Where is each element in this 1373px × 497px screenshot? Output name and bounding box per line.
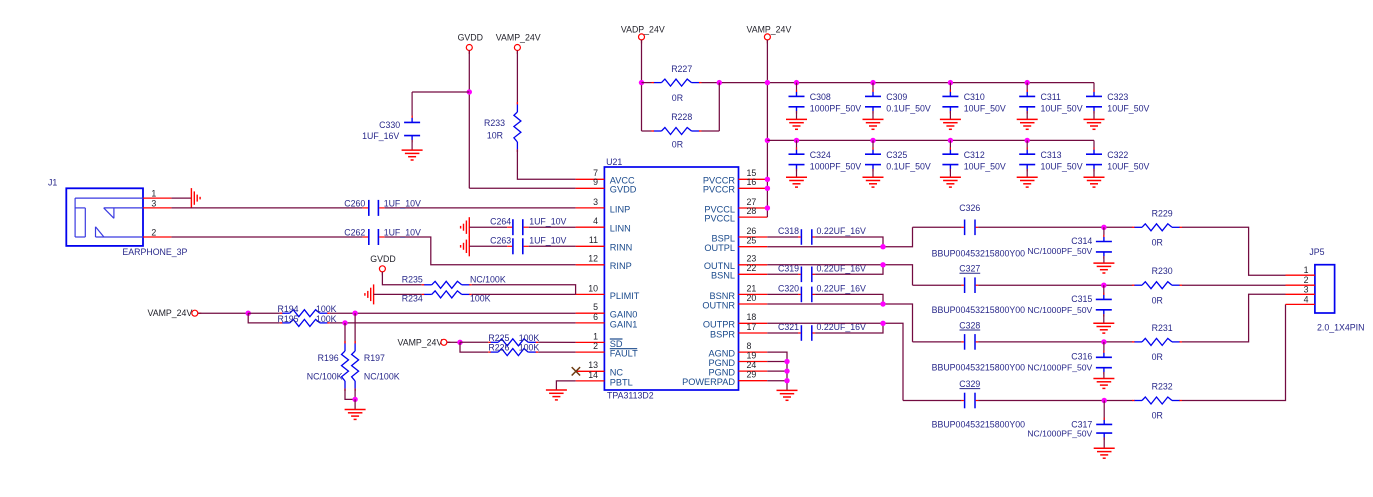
svg-text:PVCCR: PVCCR: [703, 185, 736, 195]
svg-text:2: 2: [593, 341, 598, 351]
svg-text:RINN: RINN: [610, 243, 632, 253]
svg-text:C311: C311: [1041, 92, 1061, 102]
svg-text:R227: R227: [671, 64, 692, 74]
svg-text:21: 21: [747, 283, 757, 293]
svg-text:C318: C318: [778, 226, 799, 236]
svg-text:R197: R197: [364, 353, 385, 363]
svg-text:NC/100K: NC/100K: [470, 275, 506, 285]
svg-text:NC/100K: NC/100K: [364, 371, 400, 381]
svg-text:20: 20: [747, 293, 757, 303]
svg-text:10: 10: [588, 283, 598, 293]
svg-text:C328: C328: [959, 320, 980, 330]
svg-text:C330: C330: [379, 120, 400, 130]
svg-text:BSPR: BSPR: [710, 329, 735, 339]
svg-text:BBUP00453215800Y00: BBUP00453215800Y00: [932, 363, 1026, 373]
svg-text:BBUP00453215800Y00: BBUP00453215800Y00: [932, 305, 1026, 315]
svg-text:C323: C323: [1107, 92, 1128, 102]
svg-text:PGND: PGND: [708, 368, 735, 378]
svg-text:BBUP00453215800Y00: BBUP00453215800Y00: [932, 248, 1026, 258]
svg-text:FAULT: FAULT: [610, 349, 638, 359]
svg-text:10UF_50V: 10UF_50V: [1107, 161, 1149, 171]
svg-text:VADP_24V: VADP_24V: [621, 25, 665, 35]
svg-text:22: 22: [747, 263, 757, 273]
svg-text:C260: C260: [344, 198, 365, 208]
svg-text:R229: R229: [1152, 208, 1173, 218]
svg-text:C327: C327: [959, 264, 980, 274]
svg-text:R225: R225: [488, 333, 509, 343]
svg-text:2: 2: [151, 228, 156, 238]
svg-text:C325: C325: [886, 150, 907, 160]
svg-text:1UF_16V: 1UF_16V: [362, 131, 399, 141]
svg-text:0.1UF_50V: 0.1UF_50V: [886, 104, 931, 114]
svg-text:19: 19: [747, 350, 757, 360]
svg-text:C308: C308: [810, 92, 831, 102]
svg-text:100K: 100K: [519, 343, 540, 353]
svg-text:C313: C313: [1041, 150, 1062, 160]
svg-text:10UF_50V: 10UF_50V: [1107, 104, 1149, 114]
svg-text:9: 9: [593, 177, 598, 187]
svg-text:NC/100K: NC/100K: [307, 371, 343, 381]
svg-text:28: 28: [747, 206, 757, 216]
svg-text:13: 13: [588, 360, 598, 370]
svg-text:JP5: JP5: [1309, 247, 1324, 257]
svg-text:0.22UF_16V: 0.22UF_16V: [817, 226, 867, 236]
svg-text:RINP: RINP: [610, 261, 632, 271]
svg-text:GAIN0: GAIN0: [610, 310, 638, 320]
svg-text:100K: 100K: [316, 304, 337, 314]
svg-text:10R: 10R: [487, 130, 503, 140]
svg-text:R196: R196: [318, 353, 339, 363]
svg-text:4: 4: [1304, 294, 1309, 304]
svg-text:C262: C262: [344, 228, 365, 238]
svg-text:C324: C324: [810, 150, 831, 160]
svg-text:10UF_50V: 10UF_50V: [964, 161, 1006, 171]
svg-text:C264: C264: [490, 216, 511, 226]
svg-text:3: 3: [151, 198, 156, 208]
svg-text:VAMP_24V: VAMP_24V: [148, 308, 193, 318]
svg-text:10UF_50V: 10UF_50V: [1041, 104, 1083, 114]
svg-text:BSNL: BSNL: [711, 271, 735, 281]
svg-text:VAMP_24V: VAMP_24V: [398, 337, 443, 347]
svg-text:C322: C322: [1107, 150, 1128, 160]
svg-text:24: 24: [747, 360, 757, 370]
svg-text:16: 16: [747, 177, 757, 187]
svg-text:GVDD: GVDD: [610, 185, 637, 195]
svg-text:LINN: LINN: [610, 224, 631, 234]
svg-text:SD: SD: [610, 339, 623, 349]
svg-text:OUTPR: OUTPR: [703, 320, 736, 330]
svg-text:BSPL: BSPL: [712, 233, 736, 243]
svg-text:R195: R195: [277, 314, 298, 324]
svg-text:PBTL: PBTL: [610, 377, 633, 387]
svg-text:R232: R232: [1152, 382, 1173, 392]
svg-text:C320: C320: [778, 284, 799, 294]
svg-text:R234: R234: [402, 294, 423, 304]
svg-text:0R: 0R: [1152, 238, 1163, 248]
svg-text:0R: 0R: [1152, 411, 1163, 421]
svg-text:NC/1000PF_50V: NC/1000PF_50V: [1027, 305, 1092, 315]
svg-text:14: 14: [588, 370, 598, 380]
svg-text:R230: R230: [1152, 266, 1173, 276]
svg-text:1UF_10V: 1UF_10V: [529, 236, 566, 246]
svg-text:5: 5: [593, 302, 598, 312]
svg-text:25: 25: [747, 236, 757, 246]
svg-text:0R: 0R: [672, 93, 683, 103]
svg-text:NC: NC: [610, 368, 624, 378]
svg-text:R231: R231: [1152, 323, 1173, 333]
svg-text:10UF_50V: 10UF_50V: [1041, 161, 1083, 171]
svg-text:GAIN1: GAIN1: [610, 319, 638, 329]
svg-text:0R: 0R: [1152, 295, 1163, 305]
svg-text:EARPHONE_3P: EARPHONE_3P: [122, 247, 187, 257]
svg-text:C315: C315: [1071, 294, 1092, 304]
svg-text:100K: 100K: [470, 294, 491, 304]
svg-text:18: 18: [747, 312, 757, 322]
svg-text:GVDD: GVDD: [458, 33, 483, 43]
svg-text:OUTPL: OUTPL: [704, 243, 735, 253]
svg-text:100K: 100K: [519, 333, 540, 343]
svg-text:1: 1: [593, 331, 598, 341]
svg-text:U21: U21: [606, 157, 622, 167]
svg-text:GVDD: GVDD: [370, 254, 395, 264]
svg-text:NC/1000PF_50V: NC/1000PF_50V: [1027, 246, 1092, 256]
svg-text:R226: R226: [488, 343, 509, 353]
svg-text:C329: C329: [959, 379, 980, 389]
svg-text:10UF_50V: 10UF_50V: [964, 104, 1006, 114]
svg-text:VAMP_24V: VAMP_24V: [746, 25, 791, 35]
svg-text:11: 11: [589, 235, 598, 245]
svg-text:17: 17: [747, 322, 757, 332]
svg-text:1UF_10V: 1UF_10V: [529, 216, 566, 226]
svg-text:OUTNL: OUTNL: [704, 261, 735, 271]
svg-text:C316: C316: [1071, 352, 1092, 362]
svg-text:PLIMIT: PLIMIT: [610, 291, 640, 301]
svg-text:VAMP_24V: VAMP_24V: [496, 33, 541, 43]
svg-text:1000PF_50V: 1000PF_50V: [810, 104, 861, 114]
svg-text:PGND: PGND: [708, 358, 735, 368]
svg-text:0R: 0R: [1152, 352, 1163, 362]
svg-text:12: 12: [588, 254, 598, 264]
svg-text:LINP: LINP: [610, 204, 630, 214]
svg-text:1UF_10V: 1UF_10V: [384, 228, 421, 238]
svg-text:3: 3: [1304, 284, 1309, 294]
svg-text:R228: R228: [671, 112, 692, 122]
svg-text:C310: C310: [964, 92, 985, 102]
svg-text:J1: J1: [48, 177, 57, 187]
svg-text:2.0_1X4PIN: 2.0_1X4PIN: [1317, 323, 1364, 333]
svg-text:26: 26: [747, 226, 757, 236]
svg-text:100K: 100K: [316, 314, 337, 324]
svg-text:PVCCL: PVCCL: [704, 214, 735, 224]
svg-text:R233: R233: [484, 118, 505, 128]
svg-text:BSNR: BSNR: [709, 291, 735, 301]
svg-text:1UF_10V: 1UF_10V: [384, 198, 421, 208]
svg-text:C312: C312: [964, 150, 985, 160]
svg-text:R235: R235: [402, 275, 423, 285]
svg-text:OUTNR: OUTNR: [702, 300, 735, 310]
svg-text:4: 4: [593, 216, 598, 226]
svg-text:0.1UF_50V: 0.1UF_50V: [886, 161, 931, 171]
svg-text:1: 1: [1304, 265, 1309, 275]
svg-text:C326: C326: [959, 203, 980, 213]
svg-text:C314: C314: [1071, 236, 1092, 246]
svg-text:TPA3113D2: TPA3113D2: [607, 391, 654, 401]
svg-text:C309: C309: [886, 92, 907, 102]
svg-text:0.22UF_16V: 0.22UF_16V: [817, 284, 867, 294]
svg-text:POWERPAD: POWERPAD: [682, 377, 735, 387]
svg-text:6: 6: [593, 312, 598, 322]
svg-text:NC/1000PF_50V: NC/1000PF_50V: [1027, 428, 1092, 438]
svg-text:1: 1: [151, 189, 156, 199]
svg-text:1000PF_50V: 1000PF_50V: [810, 161, 861, 171]
svg-text:3: 3: [593, 197, 598, 207]
svg-text:R194: R194: [277, 304, 298, 314]
svg-text:23: 23: [747, 254, 757, 264]
svg-text:BBUP00453215800Y00: BBUP00453215800Y00: [932, 419, 1026, 429]
svg-text:C263: C263: [490, 236, 511, 246]
svg-text:0R: 0R: [672, 140, 683, 150]
svg-text:NC/1000PF_50V: NC/1000PF_50V: [1027, 363, 1092, 373]
svg-text:29: 29: [747, 370, 757, 380]
